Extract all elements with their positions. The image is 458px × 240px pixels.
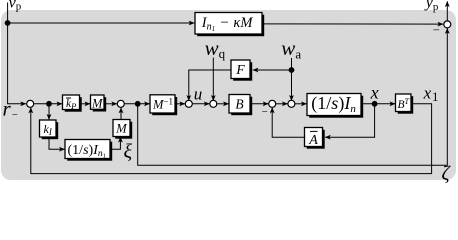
svg-text:−: − [262, 106, 268, 118]
node x dot [372, 101, 378, 107]
wire vp input down left side into summing junction S1 [8, 3, 26, 104]
svg-text:u: u [194, 85, 203, 104]
block kI [40, 120, 59, 139]
wire F output down into S3 [189, 70, 231, 101]
wire wq down into S4 [212, 58, 214, 101]
wire S1 to kP block [34, 103, 62, 105]
wire Abar output up into S5 [272, 108, 304, 138]
summing junction S3 [185, 100, 192, 107]
wire Minv to S3 [175, 103, 185, 105]
svg-text:vp: vp [9, 0, 22, 13]
node vp branch dot [5, 20, 11, 26]
wire In1-kM block to summing junction S7 [262, 23, 443, 25]
block BT [396, 94, 414, 114]
wire M to S2 [104, 103, 117, 105]
block In1 - kM [195, 13, 264, 37]
wire B to S5 [250, 103, 268, 105]
gray plant region [1, 10, 456, 180]
block (1/s)In1 [65, 140, 112, 161]
wire wa branch left into F block [253, 69, 292, 71]
block F [231, 60, 252, 81]
summing junction S5 [269, 100, 276, 107]
wire M2 up to S2 [120, 108, 122, 120]
svg-text:−: − [12, 109, 18, 121]
block Abar [305, 128, 325, 149]
wire vp branch to In1-kM block [8, 22, 195, 24]
svg-text:F: F [235, 62, 245, 77]
wire S3 to S4 [192, 103, 209, 105]
wire S5 to S6 [276, 103, 288, 105]
block Minv [150, 95, 177, 115]
svg-text:r: r [3, 97, 12, 121]
svg-text:ξ: ξ [124, 141, 133, 163]
wire wa down into S6 [291, 58, 293, 101]
block (1/s)In [307, 93, 363, 118]
block B [229, 95, 252, 116]
wire S6 to integrator block [295, 103, 307, 105]
summing junction S4 [210, 100, 217, 107]
wire node after S1 down to kI block [48, 104, 50, 120]
wire kP to M [80, 103, 91, 105]
summing junction S6 [288, 100, 295, 107]
wire S2 to Minv block [124, 103, 149, 105]
svg-text:A: A [308, 133, 318, 148]
wire node x down and left into Abar block [325, 104, 374, 137]
wire S7 up to yp output [446, 1, 448, 20]
svg-text:B: B [235, 97, 243, 112]
node wa branch dot [289, 67, 295, 73]
wire integrator to BT block through node x [361, 103, 395, 105]
node dot before Minv [135, 101, 141, 107]
wire x1 feedback from BT output down across bottom and up into S1 [31, 104, 432, 174]
wire kI to integrator n1 block [49, 137, 65, 149]
block kP [63, 95, 82, 112]
summing junction S1 [27, 100, 34, 107]
block M1 [91, 95, 107, 112]
wire S4 to B block [217, 103, 229, 105]
node dot after S1 [46, 101, 52, 107]
svg-text:(1/s)In: (1/s)In [311, 93, 356, 115]
wire integrator n1 to M2 block [110, 137, 120, 149]
svg-text:−: − [433, 23, 440, 37]
summing junction S2 [117, 100, 124, 107]
svg-text:x: x [370, 82, 379, 102]
summing junction S7 [444, 21, 451, 28]
svg-text:M: M [115, 122, 127, 136]
wire zeta feedback from node after S2 down right and up into S7 [138, 28, 448, 165]
block M2 [113, 120, 132, 139]
svg-text:M: M [91, 97, 103, 111]
